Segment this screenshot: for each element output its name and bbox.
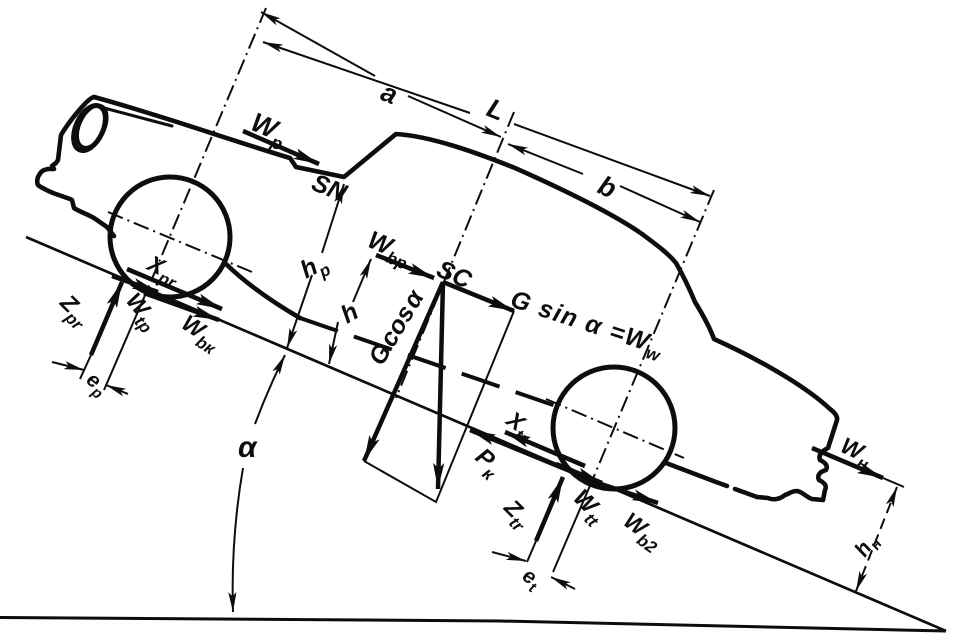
car body outline: [94, 97, 837, 500]
Xtr arrow: [505, 432, 585, 466]
G cos arrow: [364, 282, 443, 461]
et dimension arrows: [492, 552, 526, 561]
ep dimension arrows: [52, 362, 84, 370]
Pk arrow: [470, 430, 592, 480]
Wbp arrow: [376, 255, 434, 278]
car underside solid part behind front wheel: [226, 264, 300, 318]
rear wheel: [553, 367, 675, 489]
Zpr thin extension: [80, 355, 91, 379]
rear wheel slope axis (dash-dot): [546, 399, 684, 458]
Wp arrow: [243, 131, 319, 164]
angle arc alpha: [233, 355, 285, 612]
rear axle axis below contact (Wtt line): [553, 481, 592, 572]
dimension L line: [263, 42, 470, 113]
Ztr thin extension: [527, 541, 536, 562]
SC perpendicular axis (dash-dot): [396, 112, 514, 398]
front wheel slope axis (dash-dot): [108, 212, 252, 272]
parallelogram thin sides: [364, 311, 514, 502]
hp dimension line: [287, 184, 344, 348]
hood character line: [104, 108, 172, 126]
front wheel: [110, 177, 230, 297]
base horizontal ground line: [0, 618, 946, 632]
headlight: [67, 101, 112, 156]
Xpr arrow: [127, 269, 222, 309]
dimension a line: [261, 12, 375, 76]
incline road line: [26, 237, 946, 631]
G sin arrow: [443, 282, 514, 311]
Wtt force arrow: [556, 464, 602, 483]
h dimension line: [329, 259, 371, 364]
rear axle perpendicular axis (dash-dot): [592, 190, 714, 481]
Zpr arrow: [91, 282, 122, 355]
front axle axis below contact (Wtp line): [104, 293, 146, 390]
svg-text:α: α: [238, 431, 258, 464]
dimension b line: [508, 144, 583, 174]
Wtp force arrow on incline: [112, 276, 158, 292]
Ztr arrow: [536, 477, 563, 541]
G resultant arrow: [438, 282, 443, 489]
car nose outline: [37, 97, 114, 236]
car underside dashed middle: [300, 318, 556, 406]
Wbk arrow: [144, 293, 219, 320]
WH arrow: [812, 448, 883, 478]
headlight inner shading crescent: [71, 101, 113, 152]
Wb2 arrow: [592, 481, 658, 503]
hH dashed dimension line: [856, 487, 897, 591]
hH tick: [883, 478, 904, 487]
front axle perpendicular axis (dash-dot): [146, 8, 266, 293]
